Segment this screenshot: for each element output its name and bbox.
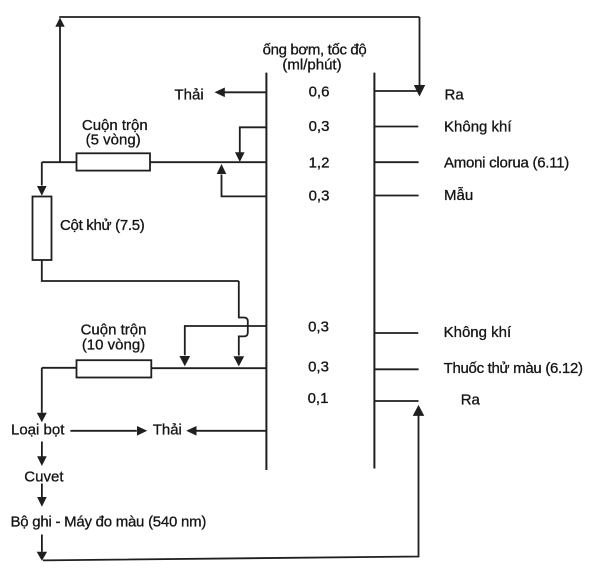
- svg-text:1,2: 1,2: [309, 154, 330, 171]
- label ong bom line1: [263, 42, 367, 59]
- svg-text:Cuvet: Cuvet: [24, 469, 64, 486]
- svg-text:Thuốc thử màu (6.12): Thuốc thử màu (6.12): [444, 360, 583, 377]
- label Khong khi row5: [444, 324, 512, 341]
- label Cot khu: [60, 217, 145, 234]
- arrow down into column: [37, 186, 47, 196]
- svg-text:0,3: 0,3: [308, 358, 329, 375]
- wire drop to Loai bot: [41, 368, 43, 413]
- svg-text:Thải: Thải: [175, 87, 204, 104]
- arrow left to Thai: [215, 88, 225, 98]
- label Ra bottom: [461, 392, 481, 409]
- pump tube right line: [373, 73, 375, 469]
- label 0,3 row6: [308, 358, 329, 375]
- label Loai bot: [11, 422, 65, 439]
- wire bottom return line: [43, 416, 419, 561]
- arrow right to Thai: [137, 426, 147, 436]
- arrow up to Ra bottom: [413, 405, 425, 416]
- wire pump to Thai: [197, 430, 267, 432]
- wire right descender: [419, 17, 421, 85]
- arrow down at bottom-left corner: [37, 552, 47, 561]
- wire coil1 left stub: [42, 161, 77, 163]
- svg-text:0,3: 0,3: [308, 319, 329, 336]
- label Khong khi row2: [444, 119, 512, 136]
- svg-text:Cột khử (7.5): Cột khử (7.5): [60, 217, 145, 234]
- svg-text:0,6: 0,6: [309, 84, 330, 101]
- pump tube left line: [265, 73, 267, 470]
- label 1,2: [309, 154, 330, 171]
- svg-text:Loại bọt: Loại bọt: [11, 422, 65, 439]
- svg-text:Amoni clorua (6.11): Amoni clorua (6.11): [444, 155, 569, 172]
- arrow down to Cuvet: [37, 456, 47, 466]
- label Ra top: [445, 87, 465, 104]
- svg-text:Không khí: Không khí: [444, 324, 512, 341]
- arrow left to Thai from pump: [186, 426, 196, 436]
- arrow down to Bo ghi: [37, 497, 47, 507]
- label Cuon tron 1 line1: [82, 117, 148, 134]
- label 0,1: [308, 390, 329, 407]
- arrow up row4 into row3: [217, 164, 227, 174]
- svg-text:(5 vòng): (5 vòng): [86, 132, 141, 149]
- wire row4 right tick: [374, 195, 418, 197]
- wire row5 left bracket: [185, 326, 267, 355]
- arrow down to Ra: [414, 85, 425, 97]
- label ong bom line2: [282, 57, 341, 74]
- svg-text:Thải: Thải: [153, 422, 182, 439]
- label 0,3 row4: [309, 188, 330, 205]
- wire row6 right tick: [374, 368, 418, 370]
- label Bo ghi: [11, 514, 207, 531]
- label Cuon tron 2 line2: [82, 337, 145, 354]
- svg-text:0,3: 0,3: [309, 188, 330, 205]
- wire row1 right to Ra: [374, 90, 419, 92]
- wire row2 bracket: [240, 127, 267, 152]
- svg-text:Ra: Ra: [461, 392, 481, 409]
- arrow up at top-left: [55, 18, 64, 27]
- label Cuon tron 1 line2: [86, 132, 141, 149]
- label 0,3 row2: [309, 118, 330, 135]
- wire column bottom to junction: [42, 260, 239, 281]
- label 0,6: [309, 84, 330, 101]
- wire row4 left bracket: [222, 175, 267, 197]
- svg-text:Không khí: Không khí: [444, 119, 512, 136]
- label Cuvet: [24, 469, 64, 486]
- wire row3 left: [150, 161, 266, 163]
- arrow down onto coil2 line (right): [233, 356, 244, 366]
- label 0,3 row5: [308, 319, 329, 336]
- arrow down row2 into row3: [235, 152, 245, 162]
- svg-text:Bộ ghi - Máy đo màu (540 nm): Bộ ghi - Máy đo màu (540 nm): [11, 514, 207, 531]
- wire coil2 to pump: [151, 367, 266, 369]
- label Thuoc thu mau: [444, 360, 583, 377]
- label Cuon tron 2 line1: [81, 322, 147, 339]
- svg-text:Mẫu: Mẫu: [444, 187, 473, 204]
- wire coil2 left stub: [42, 367, 77, 369]
- wire Bo ghi down: [41, 535, 43, 552]
- mixing coil 1 rect: [77, 153, 151, 170]
- wire row1 left to Thai: [225, 91, 267, 93]
- wire row3 right tick: [374, 161, 418, 163]
- wire down with hop over row5: [239, 281, 248, 356]
- wire row7 right tick: [374, 400, 418, 402]
- svg-text:0,1: 0,1: [308, 390, 329, 407]
- label Thai top: [175, 87, 204, 104]
- label Mau: [444, 187, 473, 204]
- mixing coil 2 rect: [77, 360, 152, 377]
- wire row5 right tick: [374, 332, 418, 334]
- wire Cuvet to Bo ghi: [41, 484, 43, 498]
- arrow down to Loai bot: [37, 413, 47, 423]
- svg-text:Ra: Ra: [445, 87, 465, 104]
- wire row2 right tick: [374, 126, 418, 128]
- wire Loai bot to Cuvet: [41, 442, 43, 457]
- wire left riser: [59, 27, 61, 163]
- label Amoni clorua: [444, 155, 569, 172]
- wire Loai bot to Thai: [70, 430, 136, 432]
- label Thai bottom: [153, 422, 182, 439]
- wire top horizontal: [59, 16, 419, 18]
- reduction column rect: [33, 197, 52, 261]
- svg-text:(10 vòng): (10 vòng): [82, 337, 145, 354]
- arrow down onto coil2 line (left): [179, 356, 190, 366]
- svg-text:0,3: 0,3: [309, 118, 330, 135]
- wire drop to reduction column: [41, 162, 43, 185]
- svg-text:(ml/phút): (ml/phút): [282, 57, 341, 74]
